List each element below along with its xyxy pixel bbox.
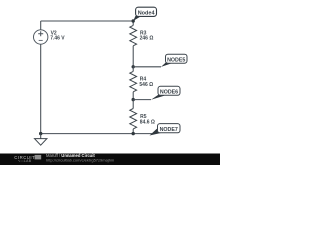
wire top rail [41,20,134,22]
footer logo block [35,155,42,160]
wire R5 to bottom rail [132,129,134,134]
wire NODE5 stub [133,66,161,68]
node Node4 flag [132,7,157,22]
wire R4 to node6 junction [132,92,134,100]
junction NODE7 [132,132,135,135]
svg-text:NODE6: NODE6 [160,90,178,96]
svg-text:http://circuitlab.com/c/ektrg5: http://circuitlab.com/c/ektrg57z9majhm [46,157,115,162]
node NODE6 flag [151,86,180,100]
resistor R5 [130,109,155,129]
wire bottom rail [41,133,152,135]
svg-text:7.46 V: 7.46 V [50,36,65,42]
wire left rail upper [40,21,42,30]
svg-text:NODE5: NODE5 [167,58,185,64]
wire R3 to node5 junction [132,46,134,67]
junction NODE6 [132,98,135,101]
resistor R3 [130,25,154,45]
wire node6 to R5 [132,100,134,109]
wire node5 to R4 [132,67,134,72]
wire NODE6 stub [133,99,151,101]
svg-text:∿⎓LAB: ∿⎓LAB [18,159,32,163]
wire right rail top stub [132,21,134,25]
footer bar [0,154,220,166]
svg-text:NODE7: NODE7 [160,127,178,133]
resistor R4 [130,71,153,91]
ground [35,134,47,146]
svg-text:246 Ω: 246 Ω [140,36,154,42]
node NODE7 flag [150,124,181,136]
junction NODE5 [132,65,135,68]
svg-text:Node4: Node4 [138,11,156,17]
svg-text:84.6 Ω: 84.6 Ω [140,120,155,126]
voltage source V2 [34,30,66,44]
junction at ground node [39,132,42,135]
svg-text:546 Ω: 546 Ω [139,82,153,88]
node NODE5 flag [161,54,187,67]
wire left rail lower [40,44,42,133]
